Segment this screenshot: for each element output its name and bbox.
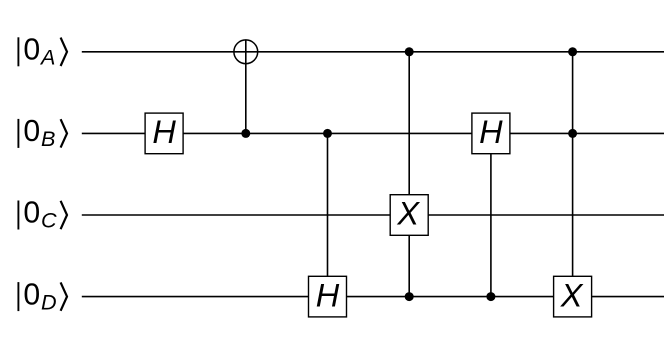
label ket |0_C> — [18, 197, 67, 233]
col4: controlled X gate on wire C — [390, 195, 428, 236]
qubit wire A — [82, 51, 664, 53]
CNOT col2: connector wire A-B — [245, 40, 247, 133]
CNOT col2: control dot on wire B — [241, 129, 250, 138]
svg-text:0: 0 — [23, 115, 40, 148]
svg-text:X: X — [396, 196, 420, 232]
col6: controlled X gate on wire D — [554, 276, 592, 317]
col4: control dot on wire D — [405, 292, 414, 301]
H gate col1 on wire B — [145, 113, 183, 154]
col4: connector wire A-D — [408, 52, 410, 297]
svg-text:A: A — [39, 45, 55, 70]
qubit wire B — [82, 132, 664, 134]
svg-text:X: X — [560, 277, 584, 313]
col4: control dot on wire A — [405, 47, 414, 56]
svg-text:H: H — [479, 114, 503, 150]
CNOT col2: target circle on wire A — [234, 40, 258, 64]
qubit wire C — [82, 214, 664, 216]
svg-text:0: 0 — [23, 197, 40, 230]
label ket |0_D> — [18, 278, 67, 314]
col3: controlled H gate on wire D — [309, 276, 347, 317]
col3: connector wire B-D — [327, 133, 329, 276]
svg-text:H: H — [316, 277, 340, 313]
label ket |0_B> — [18, 115, 67, 151]
svg-text:B: B — [41, 126, 55, 151]
col6: control dot on wire B — [568, 129, 577, 138]
svg-text:C: C — [41, 208, 57, 233]
col5: controlled H gate on wire B — [472, 113, 510, 154]
label ket |0_A> — [18, 34, 67, 70]
qubit wire D — [82, 296, 664, 298]
svg-text:D: D — [41, 289, 57, 314]
col6: connector wire A-D — [572, 52, 574, 276]
col5: connector wire B-D — [490, 154, 492, 297]
col6: control dot on wire A — [568, 47, 577, 56]
svg-text:0: 0 — [23, 34, 40, 67]
col5: control dot on wire D — [486, 292, 495, 301]
svg-text:0: 0 — [23, 278, 40, 311]
svg-text:H: H — [152, 114, 176, 150]
col3: control dot on wire B — [323, 129, 332, 138]
